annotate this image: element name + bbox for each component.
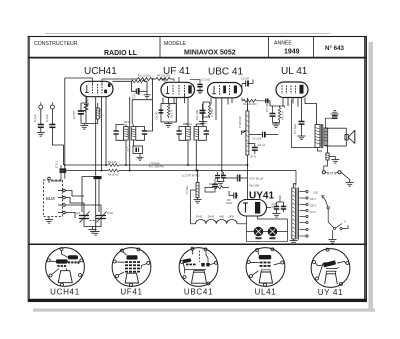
HP terminals 8-5 <box>322 170 341 175</box>
tube UBC41 <box>208 83 243 98</box>
svg-text:1949: 1949 <box>284 49 300 56</box>
antenna terminal A1 <box>39 102 43 109</box>
svg-text:C 0,1: C 0,1 <box>55 160 59 168</box>
wire speaker sec to terminal <box>324 160 328 171</box>
capacitor padder <box>132 88 148 99</box>
svg-text:C3 0,05: C3 0,05 <box>201 78 211 82</box>
resistor R osc cathode vertical <box>96 103 102 124</box>
svg-text:+CV 50 µF: +CV 50 µF <box>249 176 264 180</box>
wire choke left riser <box>190 204 192 224</box>
wire HT bus to transformer <box>294 171 297 184</box>
resistor Rk UL41 <box>278 106 284 123</box>
tube UY41 <box>238 200 267 217</box>
capacitor series grid UL41 <box>247 98 270 111</box>
output transformer TR <box>315 124 328 148</box>
svg-text:(N 4): (N 4) <box>250 155 256 159</box>
svg-text:CR 0,1: CR 0,1 <box>258 143 267 147</box>
junction blob <box>94 176 102 179</box>
svg-text:110 V: 110 V <box>310 210 317 214</box>
svg-text:230 V: 230 V <box>310 197 317 201</box>
variable capacitor CV2 <box>96 211 113 224</box>
svg-text:Ru-150: Ru-150 <box>250 184 260 188</box>
capacitor C2 0,1uF <box>45 109 55 140</box>
svg-text:8 P 5: 8 P 5 <box>327 170 337 175</box>
svg-text:BLM: BLM <box>46 196 55 201</box>
resistor Ra 10.000 second row <box>113 80 148 88</box>
tap labels <box>310 191 319 215</box>
capacitor Ck UL41 <box>265 100 285 123</box>
capacitor CD detector <box>195 104 206 120</box>
svg-text:UBC41: UBC41 <box>184 287 213 296</box>
header table <box>28 37 366 58</box>
wire transformer HT feed <box>302 148 318 153</box>
capacitor bus left end <box>55 160 67 172</box>
svg-text:ANNÉE: ANNÉE <box>274 40 292 47</box>
resistor RO 10.000 osc feed <box>113 74 171 85</box>
capacitor AF decoupling pair <box>215 172 226 182</box>
svg-text:6PB: 6PB <box>229 215 234 219</box>
tube UCH41 <box>81 81 114 96</box>
wire UL41 plate to output transformer <box>305 98 317 125</box>
ground below speaker resistor <box>328 157 340 164</box>
wire UY41 pins down <box>247 216 288 224</box>
svg-text:CA 2M: CA 2M <box>241 77 249 81</box>
variable capacitor CV1 <box>75 211 90 224</box>
wire lamp loop <box>247 219 288 241</box>
resistor Rk UF41 <box>167 104 173 118</box>
wire UF41 grid top <box>160 77 179 84</box>
svg-text:Ra 100.000: Ra 100.000 <box>243 102 257 106</box>
wire terminal to ground <box>341 172 350 179</box>
svg-text:CD 100: CD 100 <box>195 109 199 120</box>
speaker HP <box>326 128 355 146</box>
svg-text:CV 8µF: CV 8µF <box>293 124 297 134</box>
mains switch S <box>328 209 348 229</box>
svg-text:CV1: CV1 <box>75 211 81 215</box>
junction dots buses <box>101 164 249 172</box>
power transformer T <box>292 183 299 240</box>
bus wire AVC <box>65 164 248 166</box>
socket UCH41 <box>46 248 85 287</box>
tube UL41 <box>276 82 308 98</box>
svg-text:S: S <box>344 220 346 224</box>
wire UCH41 grid top <box>65 78 113 84</box>
tube UF41 <box>161 82 195 97</box>
svg-text:Ra-1Ω: Ra-1Ω <box>209 182 217 186</box>
voltage selector arrow <box>322 196 330 210</box>
antenna terminal A2 <box>50 102 54 109</box>
svg-text:0,1µF: 0,1µF <box>33 114 37 122</box>
socket UBC41 <box>179 247 218 286</box>
svg-text:P 500.000: P 500.000 <box>238 116 242 128</box>
wire gang risers <box>82 177 99 213</box>
heater chokes <box>191 215 247 224</box>
svg-text:BV41: BV41 <box>196 215 203 219</box>
svg-text:N° 643: N° 643 <box>325 45 345 52</box>
ground heater pot <box>194 198 202 204</box>
ground UF41 cathode <box>164 122 172 127</box>
socket UY41 <box>311 248 350 287</box>
svg-text:UCH41: UCH41 <box>50 287 80 296</box>
capacitor C1 0,1uF <box>33 109 44 133</box>
svg-text:UL41: UL41 <box>255 287 277 296</box>
svg-text:0,1µF: 0,1µF <box>45 114 49 122</box>
ground detector <box>199 117 207 125</box>
ganged link dashed <box>90 220 97 222</box>
wire BLM terminals to gang <box>65 191 84 197</box>
svg-text:UBC 41: UBC 41 <box>208 67 243 78</box>
UF41 cathode network <box>155 104 177 123</box>
wire cathode join <box>81 106 98 126</box>
ground tone cap <box>331 110 339 114</box>
resistor surge <box>205 182 229 189</box>
ground UCH41 cathode <box>80 126 88 130</box>
ground left vertical end <box>92 232 100 236</box>
svg-text:MF1: MF1 <box>124 120 130 124</box>
svg-text:MODÈLE: MODÈLE <box>164 40 186 47</box>
dial lamp LP2 <box>268 227 277 239</box>
tube UBC41 pin drops <box>211 98 232 172</box>
svg-text:4,7: 4,7 <box>132 95 136 99</box>
wire UCH41 pin drops <box>95 97 97 176</box>
wire UCH41 grid left drop <box>64 78 66 145</box>
separator line above sockets <box>28 243 366 245</box>
svg-text:UF41: UF41 <box>120 287 142 296</box>
svg-text:RK 170: RK 170 <box>281 111 285 120</box>
resistor field coil <box>326 146 329 160</box>
oscillator transformer L1 L2 <box>114 120 148 143</box>
ground below C7 <box>137 157 144 160</box>
potentiometer heater <box>185 171 199 205</box>
svg-text:Rb (k?m): Rb (k?m) <box>108 172 119 176</box>
filter capacitor C25b <box>267 196 287 213</box>
svg-text:UL 41: UL 41 <box>281 66 308 77</box>
capacitor heater bypass <box>205 179 218 192</box>
resistor Ra 100.000 plate UBC41 <box>242 98 265 106</box>
capacitor C3 0,05 AVC <box>190 78 211 91</box>
wire MF2 primary to UF41 plate <box>183 126 188 128</box>
ground UL41 cathode <box>272 123 280 128</box>
wire MF2 sec to UBC41 <box>196 103 203 171</box>
ground C3 <box>197 91 203 94</box>
svg-text:RO 10.000: RO 10.000 <box>138 74 151 78</box>
dial lamp LP1 <box>254 227 263 239</box>
resistor 1M detector <box>203 102 214 118</box>
wire left vertical to bus <box>64 145 66 179</box>
capacitor UY41 cathode <box>227 191 239 205</box>
wire osc box top <box>132 99 152 101</box>
wire osc to bus <box>129 97 131 171</box>
socket UF41 <box>112 248 151 287</box>
capacitor coupling UBC41-UL41 <box>241 77 253 88</box>
capacitor B+ series <box>222 171 264 182</box>
potentiometer volume <box>238 104 249 199</box>
tube UL41 pin drops <box>283 98 302 122</box>
svg-text:UCH41: UCH41 <box>84 66 117 77</box>
svg-text:Ck 50: Ck 50 <box>155 111 159 119</box>
wire bus end to BLM <box>51 165 62 181</box>
tone capacitor <box>326 114 338 128</box>
svg-text:130 V: 130 V <box>310 204 317 208</box>
svg-text:R 1MΩ: R 1MΩ <box>210 109 214 117</box>
svg-text:MINIAVOX 5052: MINIAVOX 5052 <box>184 50 236 57</box>
svg-text:1Ω CRT MTRG: 1Ω CRT MTRG <box>182 174 200 178</box>
resistor PA 100.000 <box>156 77 174 81</box>
socket UL41 <box>246 248 285 287</box>
svg-text:47 5kΩ: 47 5kΩ <box>185 186 189 194</box>
resistor Rb inline <box>108 169 119 176</box>
capacitor CR 0,1 <box>247 143 266 159</box>
svg-text:CV 0,05: CV 0,05 <box>252 137 262 141</box>
ground antenna <box>37 133 45 137</box>
wire osc junction drop <box>147 79 152 131</box>
svg-text:CV 25µF: CV 25µF <box>265 100 269 112</box>
capacitor screen UL41 <box>293 122 305 137</box>
resistor RK1 47.000 <box>84 99 90 112</box>
svg-text:Rk 170: Rk 170 <box>170 109 174 118</box>
ground decoupling pair <box>217 182 225 186</box>
BLM tuning block (dashed) <box>44 177 66 216</box>
svg-text:220: 220 <box>314 191 319 195</box>
ground HP <box>346 180 354 187</box>
wire antenna to grid bus <box>52 140 63 165</box>
svg-text:PA 100.000: PA 100.000 <box>157 74 171 78</box>
label chassis pu <box>149 161 200 177</box>
IF transformer MF2 <box>177 122 210 146</box>
junction dot <box>64 164 66 166</box>
svg-text:CV2: CV2 <box>107 211 113 215</box>
svg-text:50µF: 50µF <box>227 201 233 205</box>
svg-text:P.U. 500 PM: P.U. 500 PM <box>149 165 163 169</box>
ground transformer core <box>290 239 298 244</box>
svg-text:47.000: 47.000 <box>86 99 90 107</box>
ground screen cap <box>298 136 306 140</box>
svg-text:Ra-145: Ra-145 <box>108 160 117 164</box>
filter capacitor C25a <box>272 202 280 214</box>
capacitor CK1 cathode UCH41 <box>72 97 87 124</box>
capacitor C7 below osc <box>127 143 143 157</box>
wire gang to ground <box>84 224 101 227</box>
wire UL41 grid <box>270 101 279 135</box>
svg-text:CONSTRUCTEUR: CONSTRUCTEUR <box>34 41 78 47</box>
svg-text:RADIO LL: RADIO LL <box>104 50 138 57</box>
ground filter caps <box>273 214 281 218</box>
ground BLM <box>45 217 53 224</box>
svg-text:4AB: 4AB <box>219 215 224 219</box>
bus wire HT <box>60 170 297 172</box>
transformer taps <box>299 190 308 237</box>
wire B+ rail right <box>292 99 323 151</box>
svg-text:6V43: 6V43 <box>208 215 215 219</box>
resistor Ru-150 <box>247 172 260 200</box>
ground switch side <box>329 230 337 243</box>
header text constructeur <box>34 40 345 58</box>
svg-text:8µF: 8µF <box>272 205 277 209</box>
ground tuning gang <box>89 230 97 234</box>
junction osc divider <box>152 78 154 80</box>
resistor Ra-145 inline <box>108 160 119 166</box>
svg-text:Ck 50: Ck 50 <box>72 111 76 119</box>
tube UF41 pin drops <box>163 95 188 125</box>
capacitor CV 0,05 <box>249 132 270 141</box>
svg-text:UY 41: UY 41 <box>318 288 344 297</box>
ground padder <box>144 88 151 98</box>
